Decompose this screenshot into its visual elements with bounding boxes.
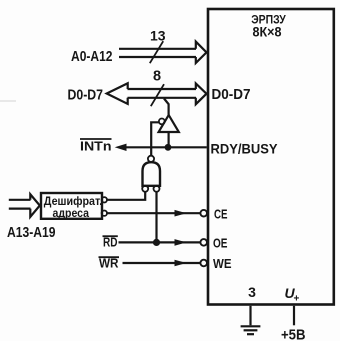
arrowhead OE [175, 239, 187, 246]
NAND input bubble left [142, 186, 148, 192]
wire +5V stem [293, 306, 295, 326]
svg-text:CE: CE [214, 206, 228, 221]
bus A0-A12 width slash [150, 41, 163, 63]
wire buffer input [168, 132, 170, 147]
bus D0-D7 width slash [151, 84, 164, 106]
arrowhead INTn [115, 144, 127, 151]
svg-text:3: 3 [248, 284, 256, 300]
svg-text:8: 8 [153, 69, 161, 85]
bus A13-A19 lines [9, 200, 31, 209]
pin bubble OE [200, 239, 207, 246]
svg-text:RDY/BUSY: RDY/BUSY [211, 141, 279, 157]
svg-text:A13-A19: A13-A19 [7, 225, 56, 241]
svg-text:D0-D7: D0-D7 [68, 88, 104, 104]
decoder output bubble top [102, 197, 107, 202]
node junction buffer input on RDY line [165, 144, 172, 151]
wire buffer output to data bus [164, 99, 169, 117]
svg-text:INTn: INTn [80, 139, 112, 154]
pin bubble WE [200, 260, 207, 267]
wire RD to NAND right input [155, 192, 157, 243]
bus D0-D7 left arrowhead [107, 83, 128, 104]
wire GND stem [249, 306, 251, 326]
pin bubble CE [200, 210, 207, 217]
bus A0-A12 arrowhead [196, 42, 207, 63]
ground symbol [241, 326, 261, 334]
bus A13-A19 arrowhead [30, 194, 40, 217]
bus A0-A12 lines [119, 49, 196, 57]
NAND gate DD1 output bubble [148, 156, 154, 162]
decoder output bubble bottom [102, 211, 107, 216]
wire WR to WE [123, 262, 201, 264]
svg-text:A0-A12: A0-A12 [71, 49, 113, 65]
wire RD to OE [119, 241, 201, 243]
svg-text:+5В: +5В [281, 326, 306, 341]
arrowhead CE [175, 210, 187, 217]
svg-text:8К×8: 8К×8 [253, 25, 282, 40]
wire RDY/BUSY to INTn [126, 146, 207, 148]
bus D0-D7 right arrowhead [196, 84, 207, 105]
scan artifact left edge [0, 100, 16, 102]
wire CE [107, 212, 200, 214]
NAND input bubble right [154, 186, 160, 192]
buffer enable bubble [159, 119, 165, 125]
svg-text:+: + [294, 294, 300, 305]
svg-text:D0-D7: D0-D7 [212, 87, 251, 103]
EPROM chip U1 box [208, 9, 334, 305]
wire decoder output to NAND left input [107, 192, 145, 200]
bus D0-D7 lines [128, 89, 197, 98]
svg-text:OE: OE [213, 235, 228, 250]
NAND gate DD1 body [143, 162, 161, 186]
svg-text:WE: WE [213, 256, 232, 271]
arrowhead WE [175, 260, 187, 267]
node junction RD / NAND input [153, 239, 160, 246]
svg-text:адреса: адреса [53, 206, 90, 220]
address decoder box [41, 193, 102, 219]
svg-text:13: 13 [150, 28, 166, 44]
tri-state buffer U2 triangle [159, 115, 179, 132]
wire NAND output to buffer enable [151, 122, 159, 155]
